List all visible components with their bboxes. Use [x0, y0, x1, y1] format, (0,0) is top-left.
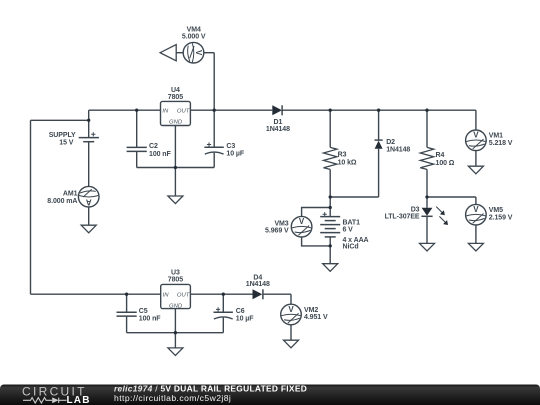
wire VM4 flag stub [176, 52, 183, 54]
wire node row R4 to VM5 [427, 196, 476, 198]
svg-text:U4: U4 [171, 87, 180, 94]
resistor R3 10k [324, 147, 357, 169]
svg-text:2.159 V: 2.159 V [489, 214, 513, 221]
resistor R4 100 [420, 147, 455, 169]
regulator U4 7805 [161, 87, 191, 126]
svg-text:V: V [473, 205, 479, 214]
svg-text:6 V: 6 V [343, 227, 354, 234]
battery SUPPLY 15V [49, 132, 99, 147]
wire R4 bottom stem [426, 169, 428, 197]
wire VM1 drop [475, 110, 477, 130]
wire C2 top stem [136, 110, 138, 147]
voltmeter VM2 [281, 304, 328, 325]
wire C5 top stem [126, 294, 128, 312]
wire U3 ground rail [127, 332, 224, 334]
wire U4 GND stem to ground [174, 125, 176, 196]
svg-text:7805: 7805 [168, 277, 183, 284]
voltmeter VM4 [182, 26, 206, 63]
wire VM4 to corner [204, 52, 215, 54]
svg-text:15 V: 15 V [59, 139, 73, 146]
node VM4/C3 tap [213, 109, 216, 112]
svg-text:7805: 7805 [168, 94, 183, 101]
node R4/D3/VM5 junction [425, 195, 428, 198]
capacitor C2 100nF [127, 143, 172, 158]
svg-text:100 nF: 100 nF [139, 316, 161, 323]
node R3 tap [329, 109, 332, 112]
LED D3 LTL-307EE [385, 206, 448, 225]
wire supply node horizontal [31, 119, 89, 121]
svg-text:4.951 V: 4.951 V [304, 314, 328, 321]
voltmeter VM3 [265, 216, 312, 237]
svg-text:SUPPLY: SUPPLY [49, 132, 76, 139]
svg-text:100 Ω: 100 Ω [436, 160, 455, 167]
svg-text:V: V [299, 217, 305, 226]
wire BAT1 bottom stem [329, 237, 331, 264]
wire VM5 top stem [475, 197, 477, 205]
svg-text:100 nF: 100 nF [149, 151, 171, 158]
wire D2 top stem [378, 110, 380, 140]
svg-text:8.000 mA: 8.000 mA [47, 198, 77, 205]
svg-text:OUT: OUT [177, 293, 190, 299]
wire U4 OUT to D1 [190, 109, 272, 111]
svg-text:VM3: VM3 [274, 220, 288, 227]
wire D4 to VM2 corner [263, 293, 291, 295]
diode D4 1N4148 [246, 274, 270, 299]
wire R4 top stem [426, 110, 428, 147]
node C5 tap [125, 293, 128, 296]
voltmeter VM5 [466, 204, 513, 225]
regulator U3 7805 [161, 269, 191, 309]
wire C3 top stem [213, 110, 215, 147]
wire C3 bottom stem [213, 153, 215, 168]
wire R3 top stem [329, 110, 331, 147]
svg-text:GND: GND [169, 304, 183, 310]
node junction dots [87, 109, 429, 335]
ground (below VM5) [468, 243, 483, 251]
wire U3 OUT to D4 [190, 293, 252, 295]
svg-text:IN: IN [163, 293, 170, 299]
wire BAT1 top stem [329, 197, 331, 217]
wire top rail to U4 IN [89, 109, 161, 111]
svg-text:R4: R4 [436, 152, 445, 159]
LED arrows [436, 207, 446, 223]
node VM3 bottom tap [329, 244, 332, 247]
svg-text:R3: R3 [338, 151, 347, 158]
capacitor C3 10uF polarized [204, 142, 244, 157]
wire left rail bottom horizontal to U3 IN [31, 293, 161, 295]
svg-text:10 µF: 10 µF [236, 316, 254, 323]
node D2 tap [377, 109, 380, 112]
svg-text:10 kΩ: 10 kΩ [338, 159, 357, 166]
capacitor C5 100nF [117, 308, 162, 323]
wire left rail vertical [30, 120, 32, 294]
svg-text:5.218 V: 5.218 V [489, 140, 513, 147]
diode D1 1N4148 [266, 105, 290, 133]
svg-text:VM5: VM5 [489, 207, 503, 214]
wire AM1 to ground [88, 207, 90, 225]
diode D2 1N4148 (pointing up) [375, 139, 411, 153]
ground flag (left of VM4, rotated) [160, 45, 176, 61]
ground (below VM2) [284, 340, 299, 348]
svg-text:relic1974 / 5V DUAL RAIL REGUL: relic1974 / 5V DUAL RAIL REGULATED FIXED [114, 383, 307, 393]
wire C2 bottom stem [136, 151, 138, 167]
wire supply top stem [88, 120, 90, 137]
wire U4 ground rail [137, 167, 215, 169]
svg-text:C2: C2 [149, 143, 158, 150]
node C6 tap [222, 293, 225, 296]
ground (below BAT1) [323, 264, 338, 272]
wire VM3 bottom branch [302, 237, 331, 246]
node R4 tap [425, 109, 428, 112]
wire C6 bottom stem [222, 318, 224, 333]
svg-text:VM1: VM1 [489, 133, 503, 140]
node C2 tap [135, 109, 138, 112]
svg-text:A: A [86, 197, 92, 206]
ammeter AM1 [47, 186, 99, 207]
wire D3 to ground [426, 216, 428, 243]
logo squiggle wire-resistor-diode [23, 398, 67, 403]
wire D1 to VM1 corner [282, 109, 476, 111]
wire VM2 ground stem [290, 325, 292, 341]
svg-text:D1: D1 [274, 119, 283, 126]
wire VM2 drop [290, 294, 292, 304]
svg-text:AM1: AM1 [63, 191, 78, 198]
svg-text:VM4: VM4 [187, 26, 201, 33]
wire C5 bottom stem [126, 316, 128, 333]
wire R3 bottom stem [329, 169, 331, 197]
wire D2 bottom stem [378, 149, 380, 197]
svg-text:LTL-307EE: LTL-307EE [385, 214, 420, 221]
wire node row R3 to D2 [330, 196, 378, 198]
capacitor C6 10uF polarized [214, 307, 255, 322]
svg-text:V: V [194, 50, 203, 56]
ground (below D3) [420, 243, 435, 251]
svg-text:VM2: VM2 [304, 307, 318, 314]
battery BAT1 6V [320, 212, 368, 251]
ground (below AM1) [81, 225, 96, 233]
wire VM4 drop to OUT rail [213, 53, 215, 110]
wire supply riser [88, 110, 90, 120]
svg-text:NiCd: NiCd [343, 244, 359, 251]
svg-text:C6: C6 [236, 308, 245, 315]
svg-text:5.969 V: 5.969 V [265, 228, 289, 235]
svg-text:BAT1: BAT1 [343, 220, 361, 227]
node VM3 top tap [329, 206, 332, 209]
wire VM5 ground stem [475, 225, 477, 244]
ground (below U4 GND) [168, 196, 183, 204]
svg-text:V: V [288, 305, 294, 314]
svg-text:OUT: OUT [177, 109, 190, 115]
ground (below U3 GND) [168, 348, 183, 356]
node R3/D2 junction [329, 195, 332, 198]
node U3 ground rail junction [174, 331, 177, 334]
node U4 ground rail junction [174, 166, 177, 169]
wire C6 top stem [222, 294, 224, 312]
svg-text:C3: C3 [226, 143, 235, 150]
svg-text:LAB: LAB [67, 395, 91, 405]
wire VM1 ground stem [475, 151, 477, 167]
svg-text:5.000 V: 5.000 V [182, 34, 206, 41]
voltmeter VM1 [466, 130, 513, 151]
wire U3 GND stem [174, 309, 176, 348]
svg-text:http://circuitlab.com/c5w2j8j: http://circuitlab.com/c5w2j8j [114, 393, 231, 403]
svg-text:GND: GND [169, 120, 183, 126]
svg-text:U3: U3 [171, 269, 180, 276]
ground (below VM1) [468, 166, 483, 174]
svg-text:D3: D3 [411, 206, 420, 213]
wire D3 top stem [426, 197, 428, 208]
svg-text:1N4148: 1N4148 [386, 146, 410, 153]
svg-text:D2: D2 [386, 139, 395, 146]
svg-text:C5: C5 [139, 308, 148, 315]
svg-text:IN: IN [162, 109, 169, 115]
footer bar [0, 383, 540, 405]
node supply junction [87, 119, 90, 122]
svg-text:V: V [473, 131, 479, 140]
svg-text:1N4148: 1N4148 [266, 126, 290, 133]
svg-text:1N4148: 1N4148 [246, 281, 270, 288]
wire supply to AM1 [88, 142, 90, 187]
wire VM3 top branch [302, 208, 331, 217]
svg-text:10 µF: 10 µF [226, 150, 244, 157]
